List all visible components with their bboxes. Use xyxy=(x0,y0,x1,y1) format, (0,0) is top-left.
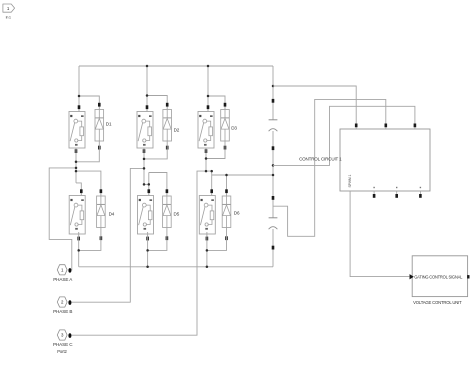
wire DC link vertical upper xyxy=(272,66,274,120)
wire to control port1 xyxy=(273,86,356,124)
wire S4 bottom drop xyxy=(78,232,80,267)
voltage control unit box xyxy=(410,256,470,305)
junction leg1 diode branch xyxy=(78,95,81,98)
IGBT switch S4 xyxy=(69,189,85,240)
svg-text:D4: D4 xyxy=(109,211,115,216)
junction DC- bus leg2 xyxy=(146,266,149,269)
wire S5 bottom drop xyxy=(147,232,149,267)
svg-text:PHASE B: PHASE B xyxy=(53,309,72,314)
label CONTROL CIRCUIT 1 xyxy=(299,157,342,162)
wire mid rail to capacitors xyxy=(212,174,273,176)
svg-text:D2: D2 xyxy=(174,128,180,133)
diode D4 xyxy=(97,189,115,240)
svg-text:VOLTAGE CONTROL UNIT: VOLTAGE CONTROL UNIT xyxy=(413,300,462,305)
IGBT switch S1 xyxy=(69,105,85,153)
svg-text:CONTROL CIRCUIT 1: CONTROL CIRCUIT 1 xyxy=(299,157,342,162)
output port 3 PHASE C xyxy=(53,330,73,354)
junction DC- bus leg3 xyxy=(206,266,209,269)
wire D6 bottom join xyxy=(207,228,227,251)
wire D1 bottom join xyxy=(76,141,99,162)
wire leg3 diode branch xyxy=(208,96,225,110)
junction leg1 lower join xyxy=(77,249,80,252)
wire leg1 upper drop xyxy=(78,66,80,112)
wire leg2 jog to S5 xyxy=(144,183,149,185)
junction leg1 phase tap xyxy=(75,167,78,170)
junction leg3 S6 xyxy=(210,170,213,173)
wire D4 bottom join xyxy=(79,228,101,251)
wire D5 bottom join xyxy=(148,228,167,251)
junction leg3 D3 join xyxy=(205,157,208,160)
svg-text:GATING CONTROL SIGNAL: GATING CONTROL SIGNAL xyxy=(414,274,463,279)
wire phase C tap xyxy=(71,171,206,335)
junction DC+ to control xyxy=(272,85,275,88)
junction leg3 diode branch xyxy=(207,95,210,98)
junction leg2 jog b xyxy=(148,183,151,186)
diode D3 xyxy=(221,103,238,150)
junction leg2 phase tap xyxy=(143,167,146,170)
IGBT switch S3 xyxy=(198,105,214,153)
svg-text:D6: D6 xyxy=(234,210,240,215)
wire leg3 to S6 xyxy=(206,171,212,195)
wire leg1 jog to S4 xyxy=(76,183,81,196)
wire D4 top branch xyxy=(76,171,101,196)
output port 2 PHASE B xyxy=(53,297,72,314)
wire S6 bottom drop xyxy=(206,232,208,267)
wire to control port3 xyxy=(273,106,415,165)
IGBT switch S5 xyxy=(138,189,154,240)
wire to control port2 xyxy=(273,99,386,236)
svg-text:In 1: In 1 xyxy=(6,15,11,19)
svg-text:Port2: Port2 xyxy=(57,349,67,354)
diode D2 xyxy=(163,103,180,150)
output port 1 PHASE A xyxy=(53,265,73,282)
svg-text:D3: D3 xyxy=(231,125,237,130)
svg-text:PHASE C: PHASE C xyxy=(53,342,73,347)
wire DC+ top bus xyxy=(79,65,273,67)
wire leg1 diode branch xyxy=(79,96,99,110)
junction mid rail at DC link xyxy=(272,174,275,177)
junction DC link mid to port3 xyxy=(272,164,275,167)
junction leg3 phase tap xyxy=(205,170,208,173)
wire phase B tap xyxy=(71,168,144,302)
wire phase A tap xyxy=(49,168,76,271)
wire DC- bottom bus xyxy=(79,266,273,268)
svg-text:D1: D1 xyxy=(106,121,112,126)
junction leg2 D2 join xyxy=(143,158,146,161)
svg-text:PHASE A: PHASE A xyxy=(53,277,73,282)
wire D3 bottom join xyxy=(206,141,225,159)
IGBT switch S2 xyxy=(137,105,153,153)
IGBT switch S6 xyxy=(199,189,215,240)
junction leg1 D4 branch xyxy=(75,170,78,173)
capacitor C2 xyxy=(269,196,278,250)
junction leg2 lower join xyxy=(146,249,149,252)
junction D6 branch xyxy=(225,174,228,177)
junction leg3 lower join xyxy=(206,249,209,252)
diode D6 xyxy=(222,189,240,240)
wire DC link vertical middle xyxy=(272,131,274,218)
control circuit box U1 xyxy=(340,124,430,198)
wire leg2 upper drop xyxy=(146,66,148,112)
wire D2 bottom join xyxy=(144,141,167,159)
wire leg1 mid vertical xyxy=(75,148,77,183)
junction top bus leg2 xyxy=(146,65,149,68)
junction leg2 diode branch xyxy=(146,94,149,97)
diode D5 xyxy=(163,189,180,240)
wire control to gating unit xyxy=(350,191,409,277)
svg-text:SPWM 1: SPWM 1 xyxy=(348,175,352,188)
svg-text:D5: D5 xyxy=(174,211,180,216)
wire D6 top branch xyxy=(226,175,228,196)
wire leg3 mid vertical xyxy=(205,148,207,171)
wire S5 top drop xyxy=(148,173,150,196)
wire leg3 upper drop xyxy=(207,66,209,112)
input port In1 xyxy=(3,4,15,19)
wire DC link vertical lower xyxy=(272,229,274,267)
junction leg1 D1 join xyxy=(75,161,78,164)
wire D5 top branch xyxy=(149,173,167,197)
diode D1 xyxy=(95,103,112,150)
wire leg2 diode branch xyxy=(147,96,167,110)
capacitor C1 xyxy=(269,99,278,150)
junction top bus leg3 xyxy=(207,65,210,68)
junction leg2 jog a xyxy=(143,183,146,186)
wire leg2 mid vertical xyxy=(143,148,145,184)
